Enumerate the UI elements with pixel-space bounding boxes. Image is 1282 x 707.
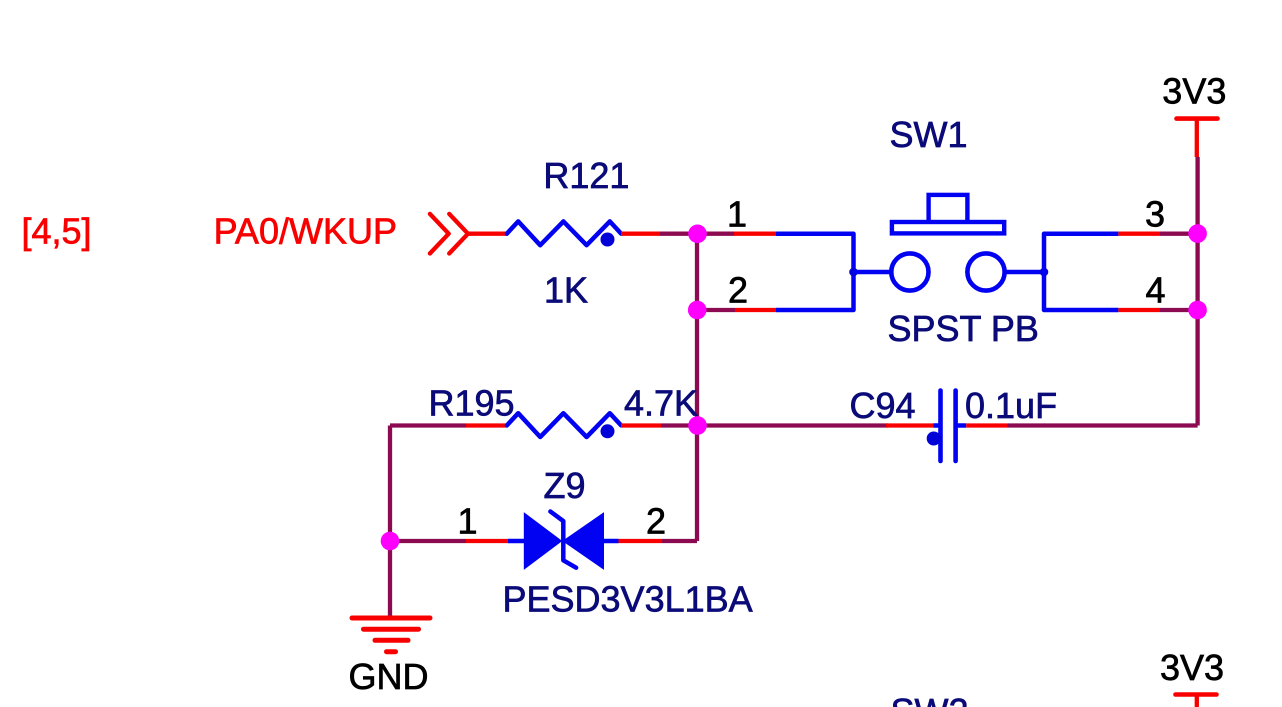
SW1 left contact arm (854, 270, 892, 275)
off-page connector chevrons (430, 214, 468, 254)
svg-text:PA0/WKUP: PA0/WKUP (214, 211, 397, 252)
SW1 left contact junction dot (849, 268, 858, 277)
SW1 pin4 stub red (1118, 308, 1160, 312)
C94 right plate (953, 391, 958, 462)
SW1 right contact circle (967, 253, 1004, 290)
wire red: connector to R121 (466, 232, 508, 236)
SW1 pin1 wire maroon (697, 232, 734, 236)
pin stub red: R121 right (621, 232, 660, 236)
svg-text:R121: R121 (543, 155, 629, 196)
svg-text:3V3: 3V3 (1162, 70, 1226, 111)
SW1 pin1 blue lead (776, 234, 854, 310)
SW1 pin3 wire maroon (1160, 232, 1198, 236)
Z9 left lead blue (508, 539, 525, 544)
svg-text:3: 3 (1145, 194, 1165, 235)
svg-text:1: 1 (457, 501, 477, 542)
C94 right lead blue (956, 423, 967, 428)
svg-text:2: 2 (728, 270, 748, 311)
svg-text:4.7K: 4.7K (624, 383, 698, 424)
junction node C (381, 532, 400, 551)
wire maroon: vertical column A (695, 234, 699, 541)
wire maroon: cap to column B (1008, 423, 1198, 427)
R195 pin1 dot (601, 424, 615, 438)
C94 pin2 stub red (966, 423, 1007, 427)
C94 left plate (938, 391, 943, 462)
junction node A3 (688, 416, 707, 435)
junction node B2 (1188, 301, 1207, 320)
C94 pin1 stub red (886, 423, 934, 427)
Z9 zener bar (550, 512, 576, 568)
SW1 right contact junction dot (1040, 268, 1049, 277)
svg-text:R195: R195 (429, 383, 515, 424)
SW1 pin4 wire maroon (1160, 308, 1198, 312)
SW1 right contact arm (1004, 270, 1044, 275)
svg-text:1: 1 (727, 194, 747, 235)
svg-text:1K: 1K (544, 269, 588, 310)
3V3 power symbol top (1177, 116, 1218, 121)
Z9 pin2 wire maroon (662, 539, 697, 543)
SW1 button cap (929, 195, 968, 223)
SW1 pin3 blue lead (1044, 234, 1118, 310)
SW1 button bar (892, 222, 1004, 233)
R195 pin stub red left (466, 423, 508, 427)
GND symbol (352, 618, 430, 652)
Z9 left triangle (524, 512, 563, 570)
Z9 pin2 stub red (619, 539, 663, 543)
svg-text:3V3: 3V3 (1160, 647, 1224, 688)
3V3 power symbol bottom (1176, 692, 1217, 697)
R121 pin1 dot (601, 233, 615, 247)
wire maroon: R195 left column down (388, 426, 392, 619)
resistor R195 zigzag (507, 413, 621, 437)
wire maroon: R195 to node A3 (661, 423, 697, 427)
wire maroon: vertical column B (1195, 157, 1199, 426)
svg-text:Z9: Z9 (544, 465, 586, 506)
svg-text:4: 4 (1145, 270, 1165, 311)
resistor R121 zigzag (507, 221, 621, 245)
svg-text:[4,5]: [4,5] (22, 211, 92, 252)
junction node A1 (688, 225, 707, 244)
svg-text:0.1uF: 0.1uF (965, 385, 1057, 426)
SW1 pin3 stub red (1118, 232, 1160, 236)
SW1 left contact circle (891, 253, 928, 290)
C94 pin1 dot (927, 432, 941, 446)
svg-text:SPST PB: SPST PB (888, 308, 1039, 349)
svg-text:2: 2 (646, 501, 666, 542)
svg-text:SW1: SW1 (890, 114, 968, 155)
SW1 pin2 stub red (735, 308, 776, 312)
wire maroon: R195 row left (390, 423, 466, 427)
Z9 pin1 stub red (466, 539, 508, 543)
junction node B1 (1188, 224, 1207, 243)
svg-text:SW2: SW2 (891, 691, 969, 707)
wire maroon: row C94 left of cap (697, 423, 888, 427)
wire maroon: R121 to node A1 (660, 232, 697, 236)
svg-text:C94: C94 (850, 385, 916, 426)
Z9 right lead blue (604, 539, 619, 544)
SW1 pin1 stub red (734, 232, 776, 236)
Z9 right triangle (562, 512, 604, 570)
R195 pin stub red right (621, 423, 661, 427)
SW1 pin2 wire maroon (697, 308, 735, 312)
C94 left lead blue (934, 423, 941, 428)
svg-text:GND: GND (349, 656, 429, 697)
svg-text:PESD3V3L1BA: PESD3V3L1BA (503, 578, 753, 619)
junction node A2 (688, 301, 707, 320)
Z9 pin1 wire maroon (390, 539, 466, 543)
